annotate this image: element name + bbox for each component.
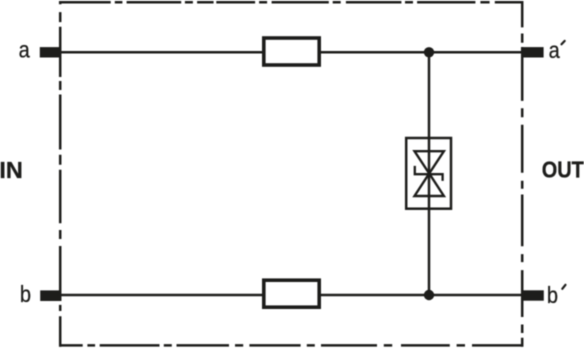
svg-text:b: b: [547, 281, 558, 308]
svg-text:a: a: [549, 37, 561, 64]
svg-text:a: a: [19, 36, 31, 63]
svg-text:OUT: OUT: [542, 156, 584, 183]
svg-text:b: b: [20, 280, 31, 307]
svg-text:IN: IN: [0, 157, 23, 183]
